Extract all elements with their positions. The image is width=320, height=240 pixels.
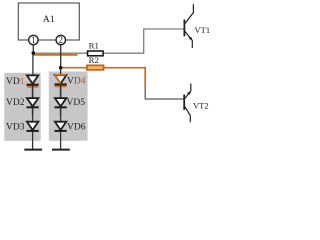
svg-text:VT1: VT1 — [195, 25, 211, 35]
svg-text:1: 1 — [31, 35, 36, 45]
svg-text:VD5: VD5 — [67, 98, 86, 108]
svg-text:2: 2 — [59, 35, 64, 45]
svg-text:R2: R2 — [89, 55, 99, 65]
svg-text:VD4: VD4 — [67, 77, 86, 87]
svg-text:VD3: VD3 — [6, 123, 25, 133]
svg-text:A1: A1 — [43, 14, 55, 25]
svg-text:VT2: VT2 — [193, 101, 209, 111]
svg-text:VD2: VD2 — [6, 98, 25, 108]
svg-text:R1: R1 — [89, 40, 99, 50]
svg-text:VD6: VD6 — [67, 123, 86, 133]
svg-text:VD1: VD1 — [6, 77, 25, 87]
